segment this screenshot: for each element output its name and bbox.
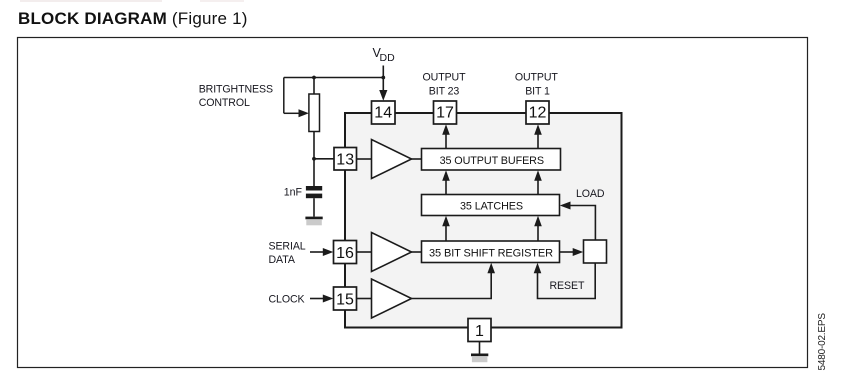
svg-text:OUTPUT: OUTPUT xyxy=(515,72,559,84)
pin 12 xyxy=(526,101,549,124)
wire serial data into pin 16 with arrow xyxy=(310,248,333,256)
svg-text:13: 13 xyxy=(336,152,354,169)
svg-text:35 LATCHES: 35 LATCHES xyxy=(460,200,523,212)
svg-text:1: 1 xyxy=(475,323,484,340)
svg-text:16: 16 xyxy=(336,245,354,262)
wire top horizontal (VDD to pot top) xyxy=(284,77,384,79)
node VDD label xyxy=(373,46,396,64)
pin 15 xyxy=(334,287,357,310)
arrow into pin 14 xyxy=(379,90,387,101)
wire shift register to load latch with arrow xyxy=(560,248,584,256)
svg-text:OUTPUT: OUTPUT xyxy=(423,72,467,84)
svg-text:CONTROL: CONTROL xyxy=(199,97,250,109)
capacitor 1nF xyxy=(306,186,322,198)
wire clock to shift register bottom with arrow xyxy=(412,263,496,299)
wire pot bottom down to capacitor xyxy=(313,132,315,187)
label OUTPUT BIT 1 xyxy=(515,72,559,98)
wire VDD vertical into pin 14 xyxy=(382,66,384,93)
block 35 OUTPUT BUFERS xyxy=(422,149,561,171)
svg-text:5480-02.EPS: 5480-02.EPS xyxy=(817,313,828,371)
wire buffers to pin 17 with arrow xyxy=(442,124,450,148)
svg-text:12: 12 xyxy=(529,104,547,121)
ground (left) xyxy=(305,217,322,226)
svg-text:17: 17 xyxy=(436,104,454,121)
svg-text:LOAD: LOAD xyxy=(576,188,605,200)
svg-text:DATA: DATA xyxy=(269,254,296,266)
node junction dot at pot top branch xyxy=(312,76,316,80)
ground (bottom) xyxy=(471,354,488,363)
label BRITGHTNESS CONTROL xyxy=(199,84,273,110)
node junction dot at VDD xyxy=(381,76,385,80)
svg-text:1nF: 1nF xyxy=(284,187,303,199)
IC body (main block) xyxy=(345,113,622,328)
svg-text:14: 14 xyxy=(374,104,392,121)
wire reset feedback with arrow xyxy=(534,263,596,299)
wire cap to ground xyxy=(313,198,315,216)
pin 17 xyxy=(434,101,457,124)
op-amp buffer A3 xyxy=(372,279,412,318)
wire shift register to latches arrow (left) xyxy=(442,216,450,241)
block 35 LATCHES xyxy=(422,195,560,216)
pin 13 xyxy=(334,148,357,171)
wire pin13 to amp1 xyxy=(357,158,372,160)
svg-text:CLOCK: CLOCK xyxy=(269,294,305,306)
svg-text:15: 15 xyxy=(336,291,354,308)
wire amp2 to shift register xyxy=(412,251,422,253)
pin 16 xyxy=(334,241,357,264)
svg-text:RESET: RESET xyxy=(550,280,585,292)
block 35 BIT SHIFT REGISTER xyxy=(422,241,560,263)
svg-text:BIT 23: BIT 23 xyxy=(429,86,460,98)
load latch block U2 xyxy=(584,240,607,263)
wire latches to buffers arrow (left) xyxy=(442,170,450,194)
wire pin1 to ground xyxy=(479,342,481,354)
svg-text:BIT 1: BIT 1 xyxy=(525,86,550,98)
op-amp buffer A1 xyxy=(372,140,412,179)
wire shift register to latches arrow (right) xyxy=(534,216,542,241)
wire pin16 to amp2 xyxy=(357,251,372,253)
pin 14 xyxy=(372,101,396,124)
arrow wiper into potentiometer xyxy=(299,109,309,117)
wire clock into pin 15 with arrow xyxy=(310,295,333,303)
svg-text:35 OUTPUT BUFERS: 35 OUTPUT BUFERS xyxy=(440,155,544,167)
wire latches to buffers arrow (right) xyxy=(534,170,542,194)
svg-text:BRITGHTNESS: BRITGHTNESS xyxy=(199,84,273,96)
wire buffers to pin 12 with arrow xyxy=(534,124,542,148)
wire wiper horizontal xyxy=(284,112,299,114)
pin 1 xyxy=(468,319,491,342)
wire left vertical (wiper feed) xyxy=(283,78,285,114)
label SERIAL DATA xyxy=(269,241,306,267)
decorative faint crop remnant (not labelled component) xyxy=(20,0,162,2)
wire LOAD into latches with arrow xyxy=(560,202,596,241)
label OUTPUT BIT 23 xyxy=(423,72,467,98)
node junction dot at pin 13 tee xyxy=(312,157,316,161)
wire pot top xyxy=(313,78,315,95)
svg-text:DD: DD xyxy=(380,52,396,64)
wire pin15 to amp3 xyxy=(357,298,372,300)
svg-text:SERIAL: SERIAL xyxy=(269,241,306,253)
svg-text:35 BIT SHIFT REGISTER: 35 BIT SHIFT REGISTER xyxy=(429,247,553,259)
wire amp1 to output buffers xyxy=(412,158,422,160)
op-amp buffer A2 xyxy=(372,233,412,272)
wire to pin 13 xyxy=(314,158,334,160)
resistor (potentiometer) xyxy=(309,94,320,132)
